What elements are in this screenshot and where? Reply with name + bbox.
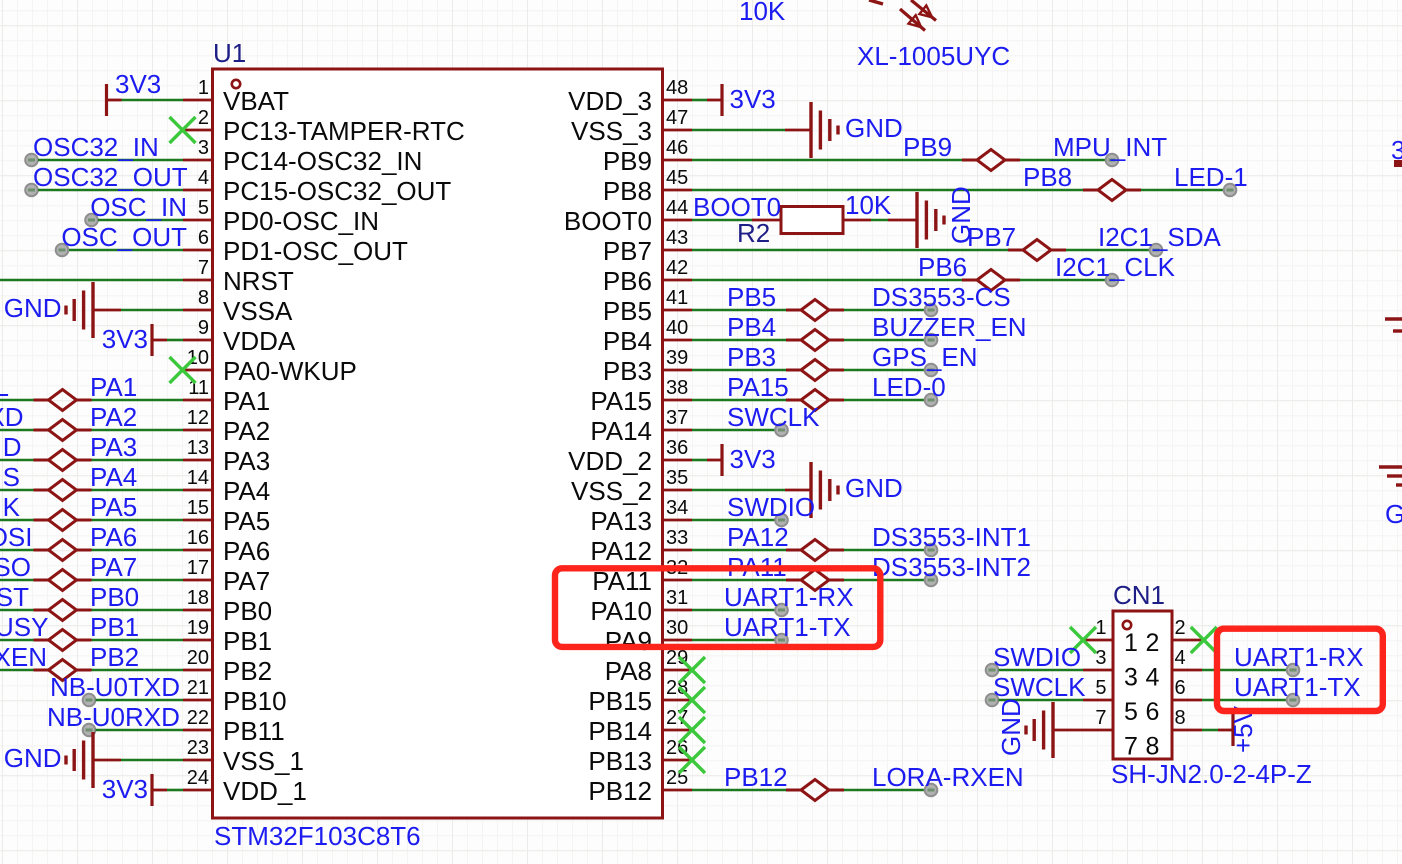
svg-text:VSS_3: VSS_3 [571, 116, 652, 146]
U1 pin 22 PB11 [183, 707, 285, 746]
svg-text:3: 3 [198, 137, 209, 159]
svg-text:18: 18 [187, 587, 209, 609]
svg-text:7: 7 [198, 257, 209, 279]
svg-text:PB5: PB5 [603, 296, 652, 326]
svg-text:DS3553-INT2: DS3553-INT2 [872, 552, 1031, 582]
net port PB2 wire pin20 [0, 642, 183, 681]
svg-text:37: 37 [666, 407, 688, 429]
svg-text:12: 12 [187, 407, 209, 429]
svg-text:PB7: PB7 [967, 222, 1016, 252]
svg-text:K: K [3, 492, 21, 522]
highlight rectangle UART nets at CN1 [1217, 629, 1383, 711]
svg-text:OSI: OSI [0, 522, 33, 552]
svg-text:PA14: PA14 [590, 416, 652, 446]
IC U1 body STM32F103C8T6 [213, 69, 663, 818]
U1 pin 7 NRST [183, 257, 294, 296]
svg-text:PB1: PB1 [90, 612, 139, 642]
net port PA2 wire pin12 [0, 402, 183, 441]
U1 pin 26 PB13 [588, 737, 692, 776]
CN1 pin 8 [1172, 707, 1202, 730]
svg-text:45: 45 [666, 167, 688, 189]
svg-text:1: 1 [198, 77, 209, 99]
svg-text:PA7: PA7 [90, 552, 137, 582]
net port PA1 wire pin11 [0, 372, 183, 411]
svg-text:1: 1 [1124, 629, 1138, 657]
power flag 3V3 pin24 [102, 774, 183, 806]
U1 pin 12 PA2 [183, 407, 270, 446]
net SWDIO wire CN1 pin3 [986, 642, 1083, 676]
svg-text:VBAT: VBAT [223, 86, 289, 116]
U1 pin 39 PB3 [603, 347, 692, 386]
U1 pin 35 VSS_2 [571, 467, 692, 506]
svg-text:38: 38 [666, 377, 688, 399]
svg-text:10K: 10K [739, 0, 786, 26]
svg-text:44: 44 [666, 197, 688, 219]
U1 pin 20 PB2 [183, 647, 272, 686]
svg-text:NRST: NRST [223, 266, 294, 296]
U1 pin 5 PD0-OSC_IN [183, 197, 379, 236]
no-connect X pin27 [679, 717, 705, 743]
svg-text:PA8: PA8 [605, 656, 652, 686]
svg-text:UART1-RX: UART1-RX [724, 582, 854, 612]
no-connect X CN1 pin2 [1191, 627, 1217, 653]
svg-text:CN1: CN1 [1113, 580, 1165, 610]
net UART1-RX wire CN1 pin4 [1202, 642, 1364, 676]
svg-text:GND: GND [1385, 499, 1402, 529]
CN1 inner pad numbers [1124, 629, 1160, 761]
svg-text:PA9: PA9 [605, 626, 652, 656]
svg-text:2: 2 [198, 107, 209, 129]
svg-text:PA6: PA6 [90, 522, 137, 552]
connector CN1 body SH-JN2.0-2-4P-Z [1113, 611, 1172, 759]
svg-text:PC14-OSC32_IN: PC14-OSC32_IN [223, 146, 422, 176]
U1 pin 32 PA11 [592, 557, 692, 596]
svg-text:8: 8 [1175, 707, 1186, 729]
svg-text:PA0-WKUP: PA0-WKUP [223, 356, 357, 386]
svg-text:6: 6 [1175, 677, 1186, 699]
U1 pin 42 PB6 [603, 257, 692, 296]
U1 pin 29 PA8 [605, 647, 692, 686]
svg-text:PB9: PB9 [603, 146, 652, 176]
net UART1-TX wire pin30 [692, 612, 851, 646]
net PB9 MPU_INT wire pin46 [692, 132, 1167, 171]
svg-text:SWDIO: SWDIO [993, 642, 1081, 672]
U1 pin 15 PA5 [183, 497, 270, 536]
svg-text:15: 15 [187, 497, 209, 519]
ground GND pin23 [4, 732, 183, 788]
svg-text:PB12: PB12 [724, 762, 788, 792]
svg-text:PB2: PB2 [90, 642, 139, 672]
net PB3 GPS_EN wire pin39 [692, 342, 978, 381]
U1 pin 36 VDD_2 [568, 437, 692, 476]
net PB7 I2C1_SDA wire pin43 [692, 222, 1221, 261]
net UART1-RX wire pin31 [692, 582, 854, 616]
CN1 pin 6 [1172, 677, 1202, 700]
svg-text:LORA-RXEN: LORA-RXEN [872, 762, 1024, 792]
svg-text:3: 3 [1095, 647, 1106, 669]
svg-text:28: 28 [666, 677, 688, 699]
U1 pin 2 PC13-TAMPER-RTC [183, 107, 465, 146]
svg-text:PB5: PB5 [727, 282, 776, 312]
svg-text:16: 16 [187, 527, 209, 549]
svg-text:OSC32_IN: OSC32_IN [33, 132, 159, 162]
U1 pin 16 PA6 [183, 527, 270, 566]
svg-text:29: 29 [666, 647, 688, 669]
U1 pin 19 PB1 [183, 617, 272, 656]
net PB4 BUZZER_EN wire pin40 [692, 312, 1027, 351]
net SWCLK wire CN1 pin5 [986, 672, 1086, 706]
svg-text:GPS_EN: GPS_EN [872, 342, 978, 372]
U1 pin 30 PA9 [605, 617, 692, 656]
svg-text:PA3: PA3 [223, 446, 270, 476]
svg-text:4: 4 [198, 167, 209, 189]
svg-text:3V3: 3V3 [102, 774, 148, 804]
svg-text:27: 27 [666, 707, 688, 729]
svg-text:PA10: PA10 [590, 596, 652, 626]
svg-text:PB12: PB12 [588, 776, 652, 806]
net OSC_OUT wire pin6 [56, 222, 187, 256]
svg-text:GND: GND [4, 743, 62, 773]
svg-text:PB14: PB14 [588, 716, 652, 746]
svg-text:17: 17 [187, 557, 209, 579]
U1 pin 3 PC14-OSC32_IN [183, 137, 422, 176]
svg-text:GND: GND [845, 473, 903, 503]
svg-text:OSC_OUT: OSC_OUT [61, 222, 187, 252]
net port PA3 wire pin13 [0, 432, 183, 471]
U1 pin 27 PB14 [588, 707, 692, 746]
svg-text:3: 3 [1124, 664, 1138, 692]
svg-text:PA5: PA5 [223, 506, 270, 536]
net PB5 DS3553-CS wire pin41 [692, 282, 1011, 321]
LED D? symbol partial XL-1005UYC [869, 0, 936, 31]
no-connect X pin26 [679, 747, 705, 773]
U1 pin 11 PA1 [183, 377, 270, 416]
svg-text:PA7: PA7 [223, 566, 270, 596]
svg-text:VDD_1: VDD_1 [223, 776, 307, 806]
net port PA7 wire pin17 [0, 552, 183, 591]
svg-text:PA15: PA15 [590, 386, 652, 416]
svg-text:PB3: PB3 [727, 342, 776, 372]
svg-text:PB0: PB0 [223, 596, 272, 626]
U1 pin 4 PC15-OSC32_OUT [183, 167, 451, 206]
svg-text:PB9: PB9 [903, 132, 952, 162]
svg-text:PD0-OSC_IN: PD0-OSC_IN [223, 206, 379, 236]
svg-text:5: 5 [1124, 698, 1138, 726]
svg-text:L: L [0, 372, 9, 402]
ground GND pin8 [4, 282, 183, 338]
svg-text:4: 4 [1146, 664, 1160, 692]
power flag 3V3 pin48 [692, 84, 776, 116]
svg-text:7: 7 [1124, 733, 1138, 761]
svg-text:PB2: PB2 [223, 656, 272, 686]
svg-text:33: 33 [666, 527, 688, 549]
svg-text:6: 6 [1146, 698, 1160, 726]
U1 pin 18 PB0 [183, 587, 272, 626]
svg-text:25: 25 [666, 767, 688, 789]
svg-text:PA4: PA4 [223, 476, 270, 506]
svg-text:7: 7 [1095, 707, 1106, 729]
svg-text:3V3: 3V3 [102, 324, 148, 354]
U1 pin 9 VDDA [183, 317, 296, 356]
svg-text:3V3: 3V3 [730, 84, 776, 114]
CN1 pin 1 [1083, 617, 1113, 640]
svg-text:PA3: PA3 [90, 432, 137, 462]
CN1 pin 2 [1172, 617, 1202, 640]
svg-text:47: 47 [666, 107, 688, 129]
svg-text:PA12: PA12 [727, 522, 789, 552]
svg-text:PD1-OSC_OUT: PD1-OSC_OUT [223, 236, 408, 266]
U1 pin 8 VSSA [183, 287, 293, 326]
svg-text:OSC32_OUT: OSC32_OUT [33, 162, 188, 192]
svg-text:PA1: PA1 [90, 372, 137, 402]
svg-text:XL-1005UYC: XL-1005UYC [857, 41, 1010, 71]
net NB-U0TXD wire pin21 [50, 672, 183, 706]
net PB6 I2C1_CLK wire pin42 [692, 252, 1176, 291]
svg-text:40: 40 [666, 317, 688, 339]
svg-text:BOOT0: BOOT0 [564, 206, 652, 236]
svg-text:SO: SO [0, 552, 31, 582]
svg-text:UART1-RX: UART1-RX [1234, 642, 1364, 672]
svg-text:42: 42 [666, 257, 688, 279]
U1 pin 46 PB9 [603, 137, 692, 176]
net SWCLK wire pin37 [692, 402, 820, 436]
U1 pin 14 PA4 [183, 467, 270, 506]
power flag +5V CN1 pin8 [1202, 705, 1258, 753]
svg-text:5: 5 [198, 197, 209, 219]
net PB8 LED-1 wire pin45 [692, 162, 1248, 201]
svg-text:24: 24 [187, 767, 209, 789]
U1 pin 10 PA0-WKUP [183, 347, 357, 386]
svg-text:3V3: 3V3 [115, 69, 161, 99]
U1 pin 40 PB4 [603, 317, 692, 356]
svg-text:MPU_INT: MPU_INT [1053, 132, 1167, 162]
svg-text:VSSA: VSSA [223, 296, 293, 326]
svg-text:GND: GND [4, 293, 62, 323]
svg-text:PA13: PA13 [590, 506, 652, 536]
svg-text:2: 2 [1146, 629, 1160, 657]
svg-text:LED-0: LED-0 [872, 372, 946, 402]
power flag 3V3 pin36 [692, 444, 776, 476]
svg-text:PB8: PB8 [603, 176, 652, 206]
svg-text:GND: GND [845, 113, 903, 143]
svg-text:PB4: PB4 [603, 326, 652, 356]
svg-text:39: 39 [666, 347, 688, 369]
net PB12 LORA-RXEN wire pin25 [692, 762, 1024, 801]
svg-text:PA15: PA15 [727, 372, 789, 402]
net OSC_IN wire pin5 [85, 192, 187, 226]
svg-text:46: 46 [666, 137, 688, 159]
power flag 3V3 pin1 [107, 69, 184, 116]
net port PA4 wire pin14 [0, 462, 183, 501]
svg-text:OSC_IN: OSC_IN [90, 192, 187, 222]
net port PA5 wire pin15 [0, 492, 183, 531]
svg-text:DS3553-CS: DS3553-CS [872, 282, 1011, 312]
svg-text:PA5: PA5 [90, 492, 137, 522]
svg-text:10K: 10K [845, 190, 892, 220]
net OSC32_OUT wire pin4 [25, 162, 188, 196]
svg-text:BUZZER_EN: BUZZER_EN [872, 312, 1027, 342]
svg-text:31: 31 [666, 587, 688, 609]
ground GND pin35 [692, 462, 903, 518]
svg-text:26: 26 [666, 737, 688, 759]
svg-text:PB7: PB7 [603, 236, 652, 266]
U1 pin 1 VBAT [183, 77, 289, 116]
svg-text:43: 43 [666, 227, 688, 249]
U1 pin 38 PA15 [590, 377, 692, 416]
svg-text:S: S [3, 462, 20, 492]
ground GND partial right edge upper [1385, 319, 1402, 331]
svg-text:VDD_3: VDD_3 [568, 86, 652, 116]
svg-text:UART1-TX: UART1-TX [724, 612, 851, 642]
power flag 3V3 pin9 [102, 324, 183, 356]
svg-text:3V3: 3V3 [730, 444, 776, 474]
svg-text:I2C1_SDA: I2C1_SDA [1098, 222, 1221, 252]
svg-text:PA2: PA2 [223, 416, 270, 446]
svg-text:NB-U0TXD: NB-U0TXD [50, 672, 180, 702]
U1 pin 41 PB5 [603, 287, 692, 326]
U1 pin 6 PD1-OSC_OUT [183, 227, 408, 266]
ground GND CN1 pin7 [996, 698, 1083, 758]
U1 pin 23 VSS_1 [183, 737, 304, 776]
svg-text:14: 14 [187, 467, 209, 489]
U1 pin 13 PA3 [183, 437, 270, 476]
svg-text:PB15: PB15 [588, 686, 652, 716]
svg-text:R2: R2 [737, 218, 770, 248]
svg-text:41: 41 [666, 287, 688, 309]
svg-text:PB3: PB3 [603, 356, 652, 386]
svg-text:30: 30 [666, 617, 688, 639]
svg-text:1: 1 [1095, 617, 1106, 639]
svg-text:PB11: PB11 [223, 716, 285, 746]
CN1 pin 5 [1083, 677, 1113, 700]
net PA15 LED-0 wire pin38 [692, 372, 946, 411]
svg-text:8: 8 [1146, 733, 1160, 761]
U1 pin 45 PB8 [603, 167, 692, 206]
net OSC32_IN wire pin3 [25, 132, 183, 166]
svg-text:48: 48 [666, 77, 688, 99]
no-connect X pin29 [679, 657, 705, 683]
svg-text:DS3553-INT1: DS3553-INT1 [872, 522, 1031, 552]
net port PB0 wire pin18 [0, 582, 183, 621]
svg-text:PB4: PB4 [727, 312, 776, 342]
U1 pin 33 PA12 [590, 527, 692, 566]
svg-text:XD: XD [0, 402, 24, 432]
svg-text:PB10: PB10 [223, 686, 287, 716]
svg-text:2: 2 [1175, 617, 1186, 639]
svg-text:SWCLK: SWCLK [727, 402, 820, 432]
svg-text:PB0: PB0 [90, 582, 139, 612]
highlight rectangle UART pins on U1 [555, 568, 880, 647]
U1 pin 21 PB10 [183, 677, 287, 716]
svg-text:D: D [3, 432, 22, 462]
U1 pin 24 VDD_1 [183, 767, 307, 806]
U1 pin 28 PB15 [588, 677, 692, 716]
svg-text:22: 22 [187, 707, 209, 729]
net port PB1 wire pin19 [0, 612, 183, 651]
svg-text:PB1: PB1 [223, 626, 272, 656]
U1 pin 25 PB12 [588, 767, 692, 806]
svg-text:PA2: PA2 [90, 402, 137, 432]
net NB-U0RXD wire pin22 [47, 702, 183, 736]
ground GND partial right edge lower [1379, 467, 1402, 529]
svg-text:PA12: PA12 [590, 536, 652, 566]
svg-text:PC15-OSC32_OUT: PC15-OSC32_OUT [223, 176, 451, 206]
svg-text:PA4: PA4 [90, 462, 137, 492]
svg-text:VDDA: VDDA [223, 326, 296, 356]
net PA11 DS3553-INT2 wire pin32 [692, 552, 1031, 591]
svg-text:5: 5 [1095, 677, 1106, 699]
svg-text:UART1-TX: UART1-TX [1234, 672, 1361, 702]
svg-text:PA6: PA6 [223, 536, 270, 566]
svg-text:PC13-TAMPER-RTC: PC13-TAMPER-RTC [223, 116, 465, 146]
svg-text:I2C1_CLK: I2C1_CLK [1055, 252, 1176, 282]
svg-text:U1: U1 [213, 38, 246, 68]
svg-text:13: 13 [187, 437, 209, 459]
U1 pin 48 VDD_3 [568, 77, 692, 116]
power flag 3V3 partial right edge [1391, 135, 1402, 167]
U1 pin 31 PA10 [590, 587, 692, 626]
net UART1-TX wire CN1 pin6 [1202, 672, 1361, 706]
U1 pin 44 BOOT0 [564, 197, 692, 236]
resistor R2 10K BOOT0 pin44 [692, 186, 976, 248]
svg-text:GND: GND [996, 698, 1026, 756]
svg-text:35: 35 [666, 467, 688, 489]
U1 pin 17 PA7 [183, 557, 270, 596]
no-connect X CN1 pin1 [1070, 627, 1096, 653]
svg-text:21: 21 [187, 677, 209, 699]
U1 pin 43 PB7 [603, 227, 692, 266]
svg-text:20: 20 [187, 647, 209, 669]
no-connect X pin10 [170, 357, 196, 383]
svg-text:10: 10 [187, 347, 209, 369]
ground GND pin47 [692, 102, 903, 158]
svg-text:LED-1: LED-1 [1174, 162, 1248, 192]
net PA12 DS3553-INT1 wire pin33 [692, 522, 1031, 561]
svg-text:PB6: PB6 [603, 266, 652, 296]
svg-text:4: 4 [1175, 647, 1186, 669]
svg-text:19: 19 [187, 617, 209, 639]
U1 pin 37 PA14 [590, 407, 692, 446]
svg-text:SWCLK: SWCLK [993, 672, 1086, 702]
U1 pin 47 VSS_3 [571, 107, 692, 146]
svg-text:VDD_2: VDD_2 [568, 446, 652, 476]
net SWDIO wire pin34 [692, 492, 815, 526]
CN1 pin 4 [1172, 647, 1202, 670]
svg-text:23: 23 [187, 737, 209, 759]
svg-text:36: 36 [666, 437, 688, 459]
svg-text:34: 34 [666, 497, 688, 519]
svg-text:VSS_2: VSS_2 [571, 476, 652, 506]
wire NRST pin7 [0, 279, 183, 282]
svg-text:8: 8 [198, 287, 209, 309]
CN1 pin 7 [1083, 707, 1113, 730]
no-connect X pin28 [679, 687, 705, 713]
svg-text:6: 6 [198, 227, 209, 249]
U1 pin 34 PA13 [590, 497, 692, 536]
svg-text:9: 9 [198, 317, 209, 339]
svg-text:PA1: PA1 [223, 386, 270, 416]
svg-text:STM32F103C8T6: STM32F103C8T6 [214, 821, 421, 851]
svg-text:ST: ST [0, 582, 29, 612]
svg-text:NB-U0RXD: NB-U0RXD [47, 702, 180, 732]
svg-text:PB13: PB13 [588, 746, 652, 776]
svg-text:SWDIO: SWDIO [727, 492, 815, 522]
svg-text:XEN: XEN [0, 642, 47, 672]
svg-text:VSS_1: VSS_1 [223, 746, 304, 776]
svg-text:PB6: PB6 [918, 252, 967, 282]
svg-text:PB8: PB8 [1023, 162, 1072, 192]
no-connect X pin2 [170, 117, 196, 143]
